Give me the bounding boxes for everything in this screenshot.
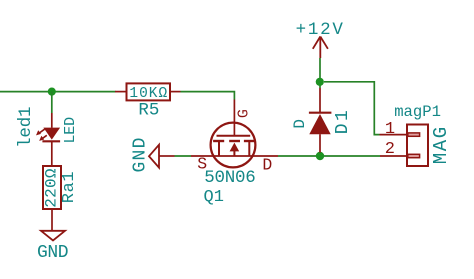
node drain junction xyxy=(316,152,324,160)
svg-text:R5: R5 xyxy=(138,101,159,121)
diode D1 anode pin xyxy=(319,134,321,152)
diode D1 cathode bar xyxy=(309,112,332,114)
transistor Q1 gate bar xyxy=(217,135,251,137)
resistor R5 right pin xyxy=(170,91,181,93)
transistor Q1 middle leg xyxy=(233,151,235,156)
node junction LED branch xyxy=(48,88,56,96)
wire +12V to diode xyxy=(319,58,321,88)
connector magP1 pin 2 xyxy=(380,155,407,157)
wire R5 to gate corner xyxy=(181,92,235,100)
connector magP1 pin 1 tab xyxy=(408,133,420,136)
wire source to Q1 xyxy=(175,155,192,157)
LED led1 anode pin xyxy=(51,113,53,128)
transistor Q1 source-drain bus and pins xyxy=(191,155,278,157)
ground power flag arrow at source xyxy=(149,145,159,168)
node +12V junction xyxy=(316,78,324,86)
svg-text:Ra1: Ra1 xyxy=(60,171,79,203)
LED led1 cathode bar xyxy=(42,140,60,142)
wire junction down to LED xyxy=(51,92,53,113)
svg-text:led1: led1 xyxy=(16,107,36,148)
svg-text:GND: GND xyxy=(37,243,68,263)
LED led1 emission arrow 2 xyxy=(39,135,47,141)
svg-text:D: D xyxy=(262,155,272,174)
svg-text:D1: D1 xyxy=(333,108,353,134)
svg-text:GND: GND xyxy=(131,136,151,172)
transistor Q1 right leg xyxy=(248,141,250,156)
transistor Q1 left leg xyxy=(218,141,220,156)
transistor Q1 body circle xyxy=(211,123,256,168)
LED led1 body triangle xyxy=(43,128,60,140)
svg-text:220Ω: 220Ω xyxy=(43,168,61,208)
svg-text:2: 2 xyxy=(385,140,395,159)
connector magP1 body xyxy=(407,125,428,167)
resistor R5 left pin xyxy=(115,91,127,93)
transistor Q1 body diode arrow xyxy=(230,143,240,152)
svg-text:1: 1 xyxy=(385,120,395,139)
connector magP1 pin 2 tab xyxy=(408,154,420,157)
svg-text:G: G xyxy=(235,109,252,118)
power +12V arrow symbol xyxy=(313,37,328,59)
connector magP1 pin 1 xyxy=(380,134,408,136)
transistor Q1 right contact cap xyxy=(244,140,254,142)
transistor Q1 left contact cap xyxy=(213,140,224,142)
svg-text:MAG: MAG xyxy=(430,125,452,164)
transistor Q1 gate pin xyxy=(233,100,235,136)
svg-text:+12V: +12V xyxy=(296,20,345,40)
wire LED cathode to Ra1 xyxy=(51,141,53,166)
transistor Q1 middle contact cap xyxy=(229,140,240,142)
wire drain to connector pin2 xyxy=(278,155,380,157)
svg-text:Q1: Q1 xyxy=(204,188,224,207)
resistor Ra1 body xyxy=(43,166,61,209)
resistor Ra1 bottom pin xyxy=(51,209,53,231)
LED led1 emission arrow 1 xyxy=(36,129,45,135)
wire junction to connector pin1 riser xyxy=(324,82,380,135)
wire main left horizontal xyxy=(0,91,116,93)
diode D1 cathode pin xyxy=(319,88,321,113)
ground symbol bottom left xyxy=(41,231,65,241)
ground power flag stub at source xyxy=(159,155,175,157)
diode D1 body triangle xyxy=(309,114,330,134)
svg-text:D: D xyxy=(291,119,309,129)
svg-text:magP1: magP1 xyxy=(394,103,441,121)
svg-text:LED: LED xyxy=(62,117,79,144)
svg-text:50N06: 50N06 xyxy=(204,168,255,188)
resistor R5 body xyxy=(127,83,171,100)
